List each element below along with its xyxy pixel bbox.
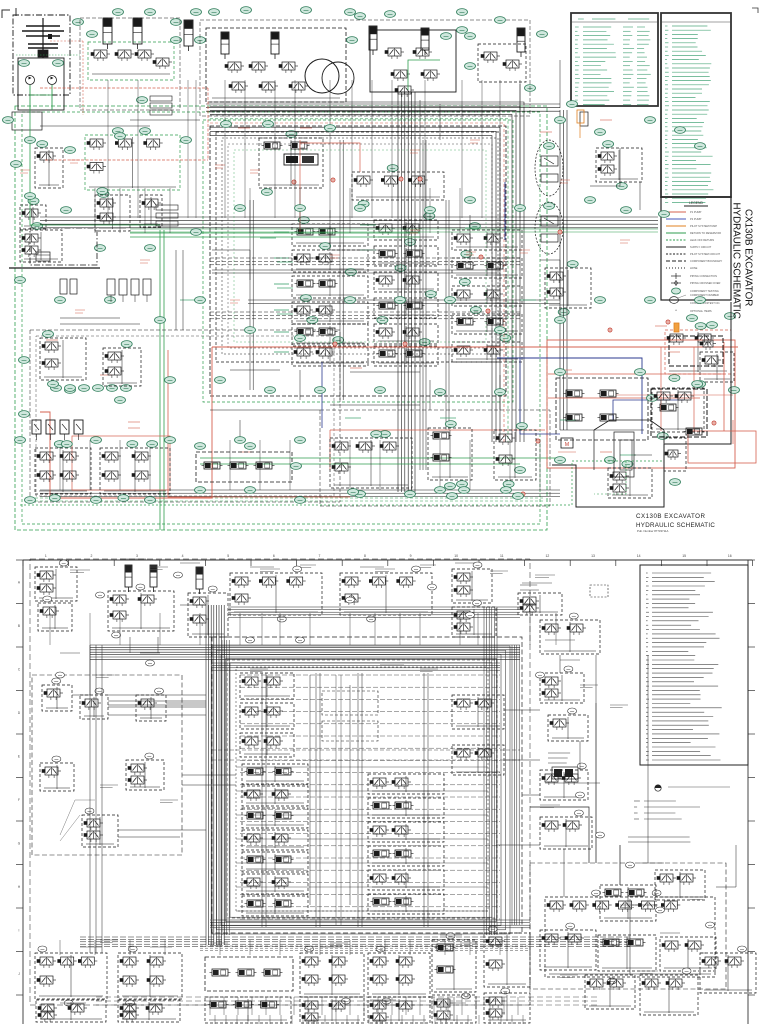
node callout xyxy=(56,672,65,678)
svg-text:HYDRAULIC SCHEMATIC: HYDRAULIC SCHEMATIC xyxy=(731,203,742,319)
wire bus xyxy=(397,92,399,492)
valve stack right row 5 xyxy=(368,894,444,914)
node callout tag xyxy=(140,128,151,135)
svg-text:PILOT SYSTEM PUMP: PILOT SYSTEM PUMP xyxy=(690,224,717,228)
cylinder T4 xyxy=(196,567,203,589)
valve cluster T10 xyxy=(540,620,600,654)
node callout tag xyxy=(235,205,246,212)
node callout tag xyxy=(191,229,202,236)
label text xyxy=(640,862,664,864)
valve bank row R0 xyxy=(452,230,522,250)
node callout xyxy=(85,808,94,814)
node callout tag xyxy=(115,133,126,140)
pilot valve cluster left B xyxy=(100,448,170,494)
legend row xyxy=(666,239,686,241)
node callout xyxy=(488,926,497,932)
node callout tag xyxy=(419,339,430,346)
node callout tag xyxy=(555,369,566,376)
tank box xyxy=(30,228,97,265)
valve cluster T8 xyxy=(452,607,496,637)
node callout xyxy=(656,907,665,913)
label text xyxy=(320,946,342,948)
node callout tag xyxy=(107,385,118,392)
node callout tag xyxy=(115,397,126,404)
note symbol rows xyxy=(634,800,640,802)
node callout tag xyxy=(195,297,206,304)
node callout tag xyxy=(195,37,206,44)
label text xyxy=(522,582,552,584)
valve cluster R1 xyxy=(540,673,584,703)
label text xyxy=(380,664,404,666)
valve bank mid row 5 xyxy=(374,346,438,366)
node callout tag xyxy=(695,297,706,304)
wire bus xyxy=(80,936,630,938)
label green xyxy=(180,299,196,301)
label green xyxy=(440,417,456,419)
svg-text:5: 5 xyxy=(227,554,229,558)
node callout tag xyxy=(585,197,596,204)
label red xyxy=(128,427,140,429)
node callout xyxy=(277,616,286,622)
node callout tag xyxy=(425,291,436,298)
label text T xyxy=(520,584,537,586)
label text xyxy=(120,558,146,560)
node callout tag xyxy=(657,433,668,440)
wire center crosslinks xyxy=(212,749,520,751)
svg-text:PIPING CROSSED OVER: PIPING CROSSED OVER xyxy=(690,281,721,285)
valve bank mid row 2 xyxy=(374,272,438,292)
test point xyxy=(608,328,612,332)
node callout tag xyxy=(171,19,182,26)
wire bus xyxy=(200,945,530,947)
valve cluster Bx1 xyxy=(36,1000,106,1022)
svg-text:13: 13 xyxy=(591,554,595,558)
node callout tag xyxy=(345,9,356,16)
svg-text:OPTIONAL ITEMS: OPTIONAL ITEMS xyxy=(690,309,712,313)
node callout tag xyxy=(73,19,84,26)
valve cluster R2 xyxy=(548,715,588,741)
node callout xyxy=(59,560,68,566)
wire bus xyxy=(130,228,658,230)
bottom edge stubs xyxy=(214,1015,216,1024)
svg-text:CX130B EXCAVATOR: CX130B EXCAVATOR xyxy=(742,209,753,306)
node callout tag xyxy=(501,487,512,494)
node callout tag xyxy=(51,385,62,392)
wire inner dashed frames xyxy=(222,138,498,354)
valve cluster R8 xyxy=(598,935,656,971)
valve stack left row 2 xyxy=(242,808,308,828)
valve cluster B8 xyxy=(540,930,596,970)
swing motor circle B xyxy=(322,62,354,94)
label green xyxy=(345,417,361,419)
svg-text:16: 16 xyxy=(728,554,732,558)
tiny label sprinkles 2 xyxy=(70,569,90,571)
legend row xyxy=(666,267,686,269)
valve stack right row 2 xyxy=(368,822,444,842)
label red xyxy=(540,131,552,133)
node callout xyxy=(568,708,577,714)
node callout xyxy=(592,890,601,896)
wire black boundary right xyxy=(552,302,731,507)
node callout tag xyxy=(670,479,681,486)
node callout tag xyxy=(695,381,706,388)
node callout tag xyxy=(3,117,14,124)
node callout xyxy=(428,584,437,590)
valve cluster C1 xyxy=(240,673,294,699)
node callout tag xyxy=(424,213,435,220)
node callout tag xyxy=(181,137,192,144)
ruler left xyxy=(22,560,24,1024)
pilot cluster B2 xyxy=(118,953,182,999)
wire salmon bottom center xyxy=(330,429,545,431)
node callout tag xyxy=(447,493,458,500)
valve stack left row 1 xyxy=(242,786,308,806)
svg-text:A: A xyxy=(18,581,21,585)
parts table 1 xyxy=(571,13,658,106)
node callout xyxy=(608,978,617,984)
valve stack left row 6 xyxy=(242,896,308,916)
center boundary inner xyxy=(227,660,497,918)
node callout tag xyxy=(28,198,39,205)
node callout tag xyxy=(687,315,698,322)
valve cluster H small xyxy=(20,205,46,229)
valve cluster G xyxy=(35,148,63,188)
node callout tag xyxy=(215,377,226,384)
wire salmon extra right horizontals xyxy=(548,373,724,375)
test point xyxy=(331,178,335,182)
node callout tag xyxy=(355,13,366,20)
node callout tag xyxy=(513,493,524,500)
svg-text:15: 15 xyxy=(682,554,686,558)
parts table 2 xyxy=(661,13,731,197)
wire bus xyxy=(30,497,545,499)
node callout tag xyxy=(516,423,527,430)
svg-text:COMPONENT NUMBER: COMPONENT NUMBER xyxy=(690,293,719,297)
svg-text:8: 8 xyxy=(364,554,366,558)
bank label xyxy=(274,351,289,353)
label text xyxy=(180,562,200,564)
valve cluster right upper xyxy=(596,148,642,182)
valve cluster B7 xyxy=(484,933,530,987)
node callout tag xyxy=(555,457,566,464)
orange pilot accumulator xyxy=(577,110,584,123)
notes box xyxy=(640,565,748,765)
node callout tag xyxy=(379,431,390,438)
svg-text:4: 4 xyxy=(182,554,184,558)
svg-text:H: H xyxy=(18,885,21,889)
node callout xyxy=(382,998,391,1004)
label red xyxy=(600,119,612,121)
valve cluster I xyxy=(20,230,62,262)
node callout tag xyxy=(195,443,206,450)
ruler top xyxy=(23,559,752,561)
label green xyxy=(277,313,293,315)
center boundary inner2 xyxy=(236,667,488,911)
node callout tag xyxy=(355,205,366,212)
node callout tag xyxy=(358,201,369,208)
node callout xyxy=(626,862,635,868)
valve cluster L5 xyxy=(126,760,164,790)
valve cluster holding boom xyxy=(88,42,174,80)
legend row xyxy=(666,225,686,227)
wire salmon right loop xyxy=(547,340,735,468)
svg-text:G: G xyxy=(18,842,21,846)
accumulator bank of four xyxy=(107,279,115,295)
node callout tag xyxy=(98,191,109,198)
valve cluster BC1 xyxy=(330,438,412,488)
node callout tag xyxy=(105,297,116,304)
node callout xyxy=(501,988,510,994)
node callout tag xyxy=(645,117,656,124)
node callout tag xyxy=(145,9,156,16)
pump P0 lower bars xyxy=(28,43,58,45)
valve cluster F swing brake xyxy=(85,135,180,190)
node callout xyxy=(341,998,350,1004)
node callout tag xyxy=(25,193,36,200)
node callout xyxy=(145,753,154,759)
right link frame xyxy=(530,863,726,989)
node callout tag xyxy=(525,85,536,92)
wire bus xyxy=(206,103,560,105)
node callout tag xyxy=(295,205,306,212)
wire salmon center links xyxy=(299,140,301,232)
valve stack right row 4 xyxy=(368,870,444,890)
svg-text:J: J xyxy=(18,972,20,976)
wire bus xyxy=(210,111,500,113)
valve cluster Bx7 xyxy=(484,993,530,1023)
travel motor cluster right xyxy=(652,388,704,432)
wire bus xyxy=(40,489,560,491)
node callout tag xyxy=(91,497,102,504)
node callout xyxy=(652,890,661,896)
node callout tag xyxy=(544,203,555,210)
node callout tag xyxy=(605,457,616,464)
pump P1 symbol xyxy=(26,76,35,85)
note footer text xyxy=(628,836,690,838)
svg-text:P1 PUMP: P1 PUMP xyxy=(690,210,702,214)
wire salmon main horizontal xyxy=(212,346,738,348)
node callout tag xyxy=(61,441,72,448)
label text xyxy=(150,946,172,948)
accumulator orange right xyxy=(674,323,679,332)
valve cluster T9 xyxy=(518,593,562,615)
wire bus xyxy=(249,200,251,390)
valve cluster L3 xyxy=(136,695,166,721)
node callout tag xyxy=(425,207,436,214)
valve bank row ARM 1 xyxy=(292,324,368,346)
node callout tag xyxy=(603,141,614,148)
wire salmon right inner xyxy=(548,397,700,399)
node callout tag xyxy=(25,137,36,144)
highlight ellipse cluster A xyxy=(535,140,563,196)
suction box xyxy=(12,112,42,130)
legend symbol piping crossed xyxy=(671,282,681,284)
node callout tag xyxy=(19,357,30,364)
node callout tag xyxy=(286,131,297,138)
node callout tag xyxy=(19,60,30,67)
node callout tag xyxy=(113,9,124,16)
svg-text:F: F xyxy=(18,798,20,802)
node callout xyxy=(576,792,585,798)
test point xyxy=(712,421,716,425)
node callout tag xyxy=(595,297,606,304)
label red xyxy=(560,369,572,371)
node callout tag xyxy=(395,265,406,272)
node callout tag xyxy=(19,411,30,418)
node callout tag xyxy=(707,322,718,329)
valve cluster L6 xyxy=(82,815,118,847)
node callout tag xyxy=(459,487,470,494)
valve cluster BC3 xyxy=(494,430,536,480)
wire long verticals left xyxy=(89,645,91,953)
page 2: monochrome hydraulic schematic xyxy=(0,545,768,1024)
label text xyxy=(370,999,396,1001)
filter row boxes xyxy=(150,96,172,101)
legend row xyxy=(666,218,686,220)
pump P2 symbol xyxy=(48,76,57,85)
node callout xyxy=(466,612,475,618)
node callout tag xyxy=(315,387,326,394)
cylinder C1 xyxy=(369,26,377,50)
legend box xyxy=(661,197,731,300)
node callout xyxy=(574,810,583,816)
valve cluster main center xyxy=(259,138,323,188)
svg-text:12: 12 xyxy=(546,554,550,558)
bank label xyxy=(274,331,289,333)
node callout tag xyxy=(345,269,356,276)
small box T11 xyxy=(590,585,608,597)
node callout tag xyxy=(307,317,318,324)
bank label xyxy=(274,231,289,233)
valve bank row OPTION xyxy=(292,250,368,272)
pump P0 gearbox bars xyxy=(26,25,60,27)
pump assembly P0 boundary xyxy=(13,15,70,95)
node callout tag xyxy=(245,443,256,450)
valve cluster BL1 xyxy=(40,338,86,380)
valve stack left row 3 xyxy=(242,830,308,850)
node callout xyxy=(536,672,545,678)
node callout tag xyxy=(692,381,703,388)
node callout tag xyxy=(320,243,331,250)
wire connector Ls page2 xyxy=(108,704,206,706)
wire bus xyxy=(483,607,485,935)
valve cluster J xyxy=(95,195,130,231)
node callout xyxy=(38,946,47,952)
svg-text:1: 1 xyxy=(45,554,47,558)
label text xyxy=(660,932,680,934)
valve bank row UPPER(R) xyxy=(292,302,368,324)
wire salmon left vertical 2 xyxy=(168,350,350,497)
wire long horizontals left xyxy=(108,694,206,696)
label text xyxy=(60,1002,86,1004)
label red xyxy=(46,339,58,341)
valve cluster K xyxy=(140,195,162,227)
valve cluster R9 xyxy=(660,937,716,971)
wire connector Ls xyxy=(130,119,200,121)
node callout tag xyxy=(37,141,48,148)
svg-text:LEGEND: LEGEND xyxy=(689,201,703,205)
node callout tag xyxy=(65,385,76,392)
node callout tag xyxy=(15,437,26,444)
valve cluster BL2 xyxy=(103,348,141,386)
node callout tag xyxy=(459,279,470,286)
inner vertical bundles xyxy=(261,673,263,927)
node callout tag xyxy=(263,121,274,128)
node callout tag xyxy=(245,487,256,494)
label text xyxy=(250,566,274,568)
node callout tag xyxy=(567,261,578,268)
wire bus xyxy=(419,140,421,470)
node callout xyxy=(569,613,578,619)
node callout tag xyxy=(93,385,104,392)
label red xyxy=(350,367,362,369)
node callout tag xyxy=(435,389,446,396)
svg-text:3: 3 xyxy=(136,554,138,558)
wire bus xyxy=(210,919,530,921)
valve cluster C3 xyxy=(240,733,294,757)
svg-text:6: 6 xyxy=(273,554,275,558)
wire dashed frame bottom left xyxy=(30,330,340,502)
node callout xyxy=(412,566,421,572)
valve cluster C4 xyxy=(452,695,504,729)
swivel joint cluster xyxy=(556,378,648,440)
label rows R xyxy=(548,752,570,754)
node callout xyxy=(246,637,255,643)
wire red dashed top-left loop xyxy=(40,87,208,89)
node callout tag xyxy=(61,207,72,214)
legend row xyxy=(666,246,686,248)
node callout tag xyxy=(621,207,632,214)
wire dashed frame bottom mid xyxy=(320,410,550,506)
ruler right xyxy=(747,560,749,1024)
wire drops top to trunk xyxy=(107,80,109,218)
page frame corner marks xyxy=(2,10,10,18)
node callout tag xyxy=(49,495,60,502)
node callout tag xyxy=(345,297,356,304)
wire green boundary frame inner xyxy=(22,112,540,524)
test point xyxy=(666,320,670,324)
node callout tag xyxy=(405,239,416,246)
node callout tag xyxy=(348,489,359,496)
label red xyxy=(300,127,312,129)
valve cluster R4 xyxy=(540,817,592,849)
node callout tag xyxy=(461,251,472,258)
valve cluster mid pilots xyxy=(352,172,444,200)
node callout xyxy=(95,688,104,694)
test point xyxy=(333,342,337,346)
valve bank row TRAVEL(R) xyxy=(292,344,368,366)
node callout tag xyxy=(470,307,481,314)
node callout xyxy=(346,597,355,603)
valve cluster C5 xyxy=(452,745,504,775)
wire bus xyxy=(90,644,520,646)
legend symbol piping connection xyxy=(671,275,681,277)
wire outer dashed frame xyxy=(30,559,530,1005)
node callout tag xyxy=(54,441,65,448)
node callout tag xyxy=(555,117,566,124)
label text xyxy=(560,659,580,661)
label text xyxy=(545,639,575,641)
node callout tag xyxy=(221,121,232,128)
svg-text:HOSE: HOSE xyxy=(690,266,698,270)
node callout tag xyxy=(245,327,256,334)
node callout tag xyxy=(465,197,476,204)
valve bank row UPPER(L) xyxy=(292,224,368,246)
node callout tag xyxy=(87,31,98,38)
wire bus xyxy=(559,110,561,430)
node callout tag xyxy=(555,317,566,324)
legend row xyxy=(666,260,686,262)
